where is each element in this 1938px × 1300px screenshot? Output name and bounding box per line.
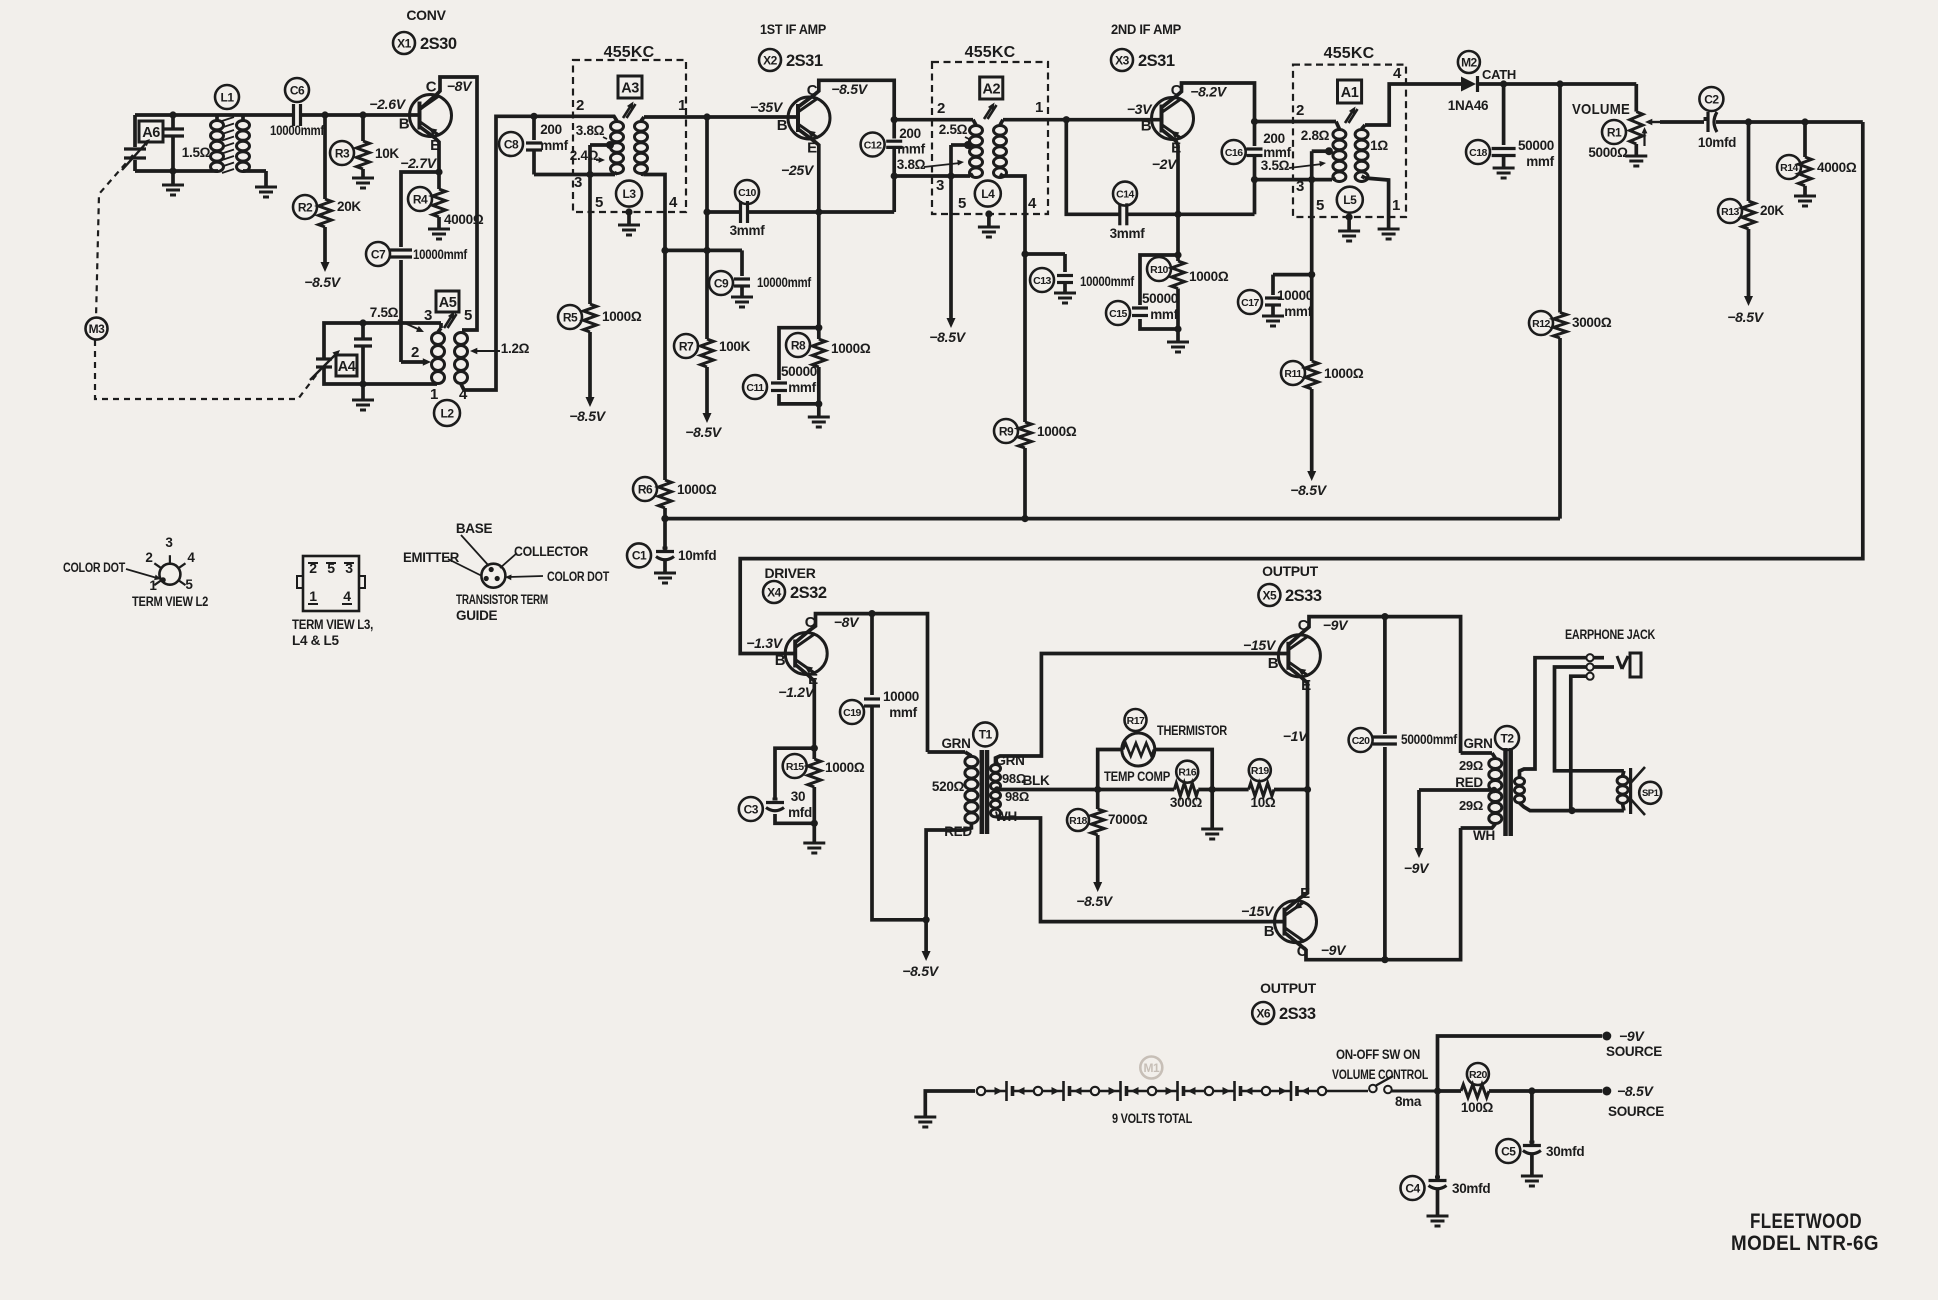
pin number 4 of L4	[1028, 195, 1037, 212]
transistor ref X6	[1252, 1002, 1274, 1024]
svg-text:A1: A1	[1341, 85, 1359, 101]
capacitor C13 10000mmf	[1057, 276, 1073, 283]
wire X2 emitter	[798, 129, 819, 212]
node A1 pin3 crossing	[1308, 176, 1315, 183]
transformer T2 primary coil	[1461, 753, 1502, 824]
svg-text:5: 5	[185, 577, 193, 592]
svg-text:3: 3	[574, 174, 582, 191]
wire X1 collector to -8V rail	[420, 77, 478, 330]
net -8.5V below A2	[929, 329, 966, 345]
transistor X6 2S33	[1275, 901, 1317, 943]
svg-text:4000Ω: 4000Ω	[444, 212, 484, 227]
svg-text:M2: M2	[1461, 55, 1477, 69]
value 10mfd C1	[678, 548, 716, 563]
net -8.5V below R5	[569, 408, 606, 424]
svg-text:C11: C11	[746, 382, 764, 394]
wire to -9V source	[1438, 1036, 1603, 1091]
wire T1 primary bottom	[926, 824, 971, 920]
label VOLUME CONTROL	[1332, 1067, 1428, 1082]
svg-text:4: 4	[1393, 65, 1402, 82]
wire C16 to bottom wire	[1253, 180, 1257, 215]
terminal view L3 box	[297, 556, 365, 611]
svg-text:−8.2V: −8.2V	[1190, 84, 1227, 100]
label L4 and L5	[292, 633, 339, 648]
type 2S32	[790, 584, 827, 602]
wire BLK center tap	[994, 786, 1098, 792]
svg-text:3mmf: 3mmf	[1110, 226, 1146, 241]
resistor label R13	[1718, 199, 1742, 223]
core arrow of L4	[984, 103, 997, 120]
svg-text:R15: R15	[786, 761, 804, 773]
node C18 junction	[1500, 80, 1507, 87]
label VOLUME	[1572, 101, 1630, 118]
IF transformer A1 dashed shield box	[1293, 65, 1406, 217]
svg-text:A3: A3	[621, 81, 639, 97]
wire diode to volume	[1478, 84, 1636, 112]
value mmf C15	[1150, 307, 1178, 322]
ground below C17	[1262, 305, 1284, 326]
wire X3 collector rail	[1162, 83, 1255, 122]
node R8 top	[815, 324, 822, 331]
wire to R3	[361, 115, 365, 141]
resistor R20 100ohm	[1461, 1085, 1489, 1098]
svg-text:L1: L1	[220, 90, 234, 104]
node R8 bottom	[815, 400, 822, 407]
wire T1 sec bottom to X6 base	[996, 816, 1285, 922]
svg-text:R12: R12	[1532, 318, 1550, 330]
box label A4	[336, 355, 357, 376]
wire T2 sec bottom	[1520, 803, 1573, 811]
capacitor C8 200mmf	[526, 116, 542, 174]
transformer T2 secondary	[1515, 778, 1525, 803]
svg-text:1000Ω: 1000Ω	[1189, 269, 1229, 284]
pin letter E of X3	[1171, 140, 1181, 157]
type 2S33 lower	[1279, 1005, 1316, 1023]
value 3000ohm	[1572, 315, 1612, 330]
node tap/pin5 crossing	[586, 171, 593, 178]
node X1 emitter junction	[435, 168, 442, 175]
wire R14	[1803, 122, 1807, 157]
node R6 bus junction	[661, 515, 668, 522]
pin number 3 of L4	[936, 177, 944, 194]
voltage -3V at X3 base	[1127, 101, 1153, 117]
svg-text:−1.3V: −1.3V	[746, 635, 783, 651]
ground below R1	[1625, 144, 1647, 166]
wire left vertical of X2 cell	[705, 117, 709, 339]
svg-text:mfd: mfd	[788, 805, 812, 820]
svg-text:2: 2	[411, 344, 419, 361]
label EARPHONE JACK	[1565, 627, 1655, 642]
potentiometer R1 5000ohm	[1630, 112, 1660, 144]
coil label L4	[975, 181, 1001, 207]
value 100K	[719, 339, 751, 354]
IF transformer A2 dashed shield box	[932, 62, 1048, 214]
wire A2 pin2	[894, 118, 973, 122]
svg-text:R9: R9	[999, 424, 1014, 438]
coil L4 secondary	[994, 120, 1007, 178]
wire C12 down to bottom	[892, 176, 896, 212]
label BASE	[456, 521, 493, 536]
value 50000 C18	[1518, 138, 1554, 153]
svg-text:100K: 100K	[719, 339, 751, 354]
capacitor C5 30mfd	[1521, 1091, 1543, 1186]
svg-text:CATH: CATH	[1482, 67, 1516, 82]
svg-text:200: 200	[1263, 131, 1285, 146]
svg-text:1000Ω: 1000Ω	[602, 309, 642, 324]
svg-text:X4: X4	[767, 585, 782, 599]
svg-text:−3V: −3V	[1127, 101, 1153, 117]
coil L4 primary	[970, 120, 983, 178]
net -8.5V below T1	[902, 963, 939, 979]
value mmf C12	[897, 142, 925, 157]
svg-text:455KC: 455KC	[965, 44, 1016, 61]
variable capacitor A4	[310, 350, 340, 380]
svg-text:−1V: −1V	[1283, 728, 1309, 744]
pin letter B of X6	[1264, 923, 1275, 940]
label 455KC first IF	[604, 44, 655, 61]
pin number 1 of L4	[1035, 99, 1043, 116]
pin number 2 of L2	[411, 344, 419, 361]
svg-text:FLEETWOOD: FLEETWOOD	[1750, 1210, 1862, 1233]
capacitor C14 3mmf	[1120, 203, 1127, 225]
shield ground of A2	[978, 210, 1000, 237]
voltage -1.2V at X4 emitter	[778, 684, 815, 700]
thermistor R17	[1122, 733, 1155, 766]
wire T2 primary bottom	[1461, 824, 1496, 828]
voltage -2.7V at X1 emitter	[400, 155, 437, 171]
pot wiper up arrow	[1642, 127, 1648, 146]
capacitor label C10	[735, 180, 759, 204]
pin letter C of X3	[1171, 82, 1182, 99]
svg-text:B: B	[399, 116, 410, 133]
tap wire into L3	[590, 141, 614, 175]
label 8ma	[1395, 1094, 1422, 1109]
resistor label R18	[1067, 809, 1089, 831]
pin letter B of X4	[775, 652, 786, 669]
wire C6 to X1 base	[301, 113, 422, 117]
wire T1 primary top	[928, 750, 966, 754]
wire pin5 down to C17 junction	[1310, 180, 1314, 275]
pin letter B of X5	[1268, 655, 1279, 672]
pin letter B of X3	[1141, 118, 1152, 135]
diode label M2	[1458, 51, 1480, 73]
pin number 5 of L3	[595, 194, 603, 211]
svg-text:3000Ω: 3000Ω	[1572, 315, 1612, 330]
net -8.5V below R18	[1076, 893, 1113, 909]
svg-text:R7: R7	[679, 339, 694, 353]
ground below C9	[731, 286, 753, 307]
svg-text:C20: C20	[1352, 735, 1370, 747]
label OUTPUT X6	[1260, 980, 1317, 996]
svg-text:R4: R4	[413, 192, 428, 206]
thermistor R17 loop	[1098, 750, 1213, 790]
antenna coil L1 core	[222, 117, 234, 173]
svg-text:1: 1	[149, 578, 157, 593]
svg-text:OUTPUT: OUTPUT	[1262, 563, 1319, 579]
svg-text:30: 30	[791, 789, 805, 804]
capacitor C10 3mmf	[741, 201, 748, 223]
node R15 top	[811, 745, 818, 752]
terminal -9V source	[1602, 1032, 1611, 1041]
svg-text:L4 & L5: L4 & L5	[292, 633, 339, 648]
svg-text:C16: C16	[1225, 147, 1243, 159]
resistor label R4	[408, 187, 432, 211]
pin letter E of X6	[1300, 885, 1310, 902]
svg-text:X1: X1	[397, 36, 412, 50]
label 2ND IF AMP	[1111, 21, 1181, 37]
node C8 top	[530, 113, 537, 120]
voltage -1V at X5 emitter	[1283, 728, 1309, 744]
pin number 3 of L2	[424, 307, 432, 324]
net -8.5V below R11	[1290, 482, 1327, 498]
svg-text:CONV: CONV	[406, 7, 446, 23]
resistor R9 1000ohm	[1019, 422, 1032, 448]
svg-text:8ma: 8ma	[1395, 1094, 1422, 1109]
voltage -35V at X2 base	[750, 99, 784, 115]
capacitor C11 block	[779, 328, 819, 404]
resistor R6 1000ohm	[659, 480, 672, 508]
value mmf C11	[788, 380, 816, 395]
label WH T1	[995, 809, 1017, 824]
svg-text:10000mmf: 10000mmf	[1080, 274, 1135, 289]
svg-text:MODEL NTR-6G: MODEL NTR-6G	[1731, 1232, 1879, 1255]
label GUIDE	[456, 608, 498, 623]
svg-text:1.2Ω: 1.2Ω	[501, 341, 530, 356]
wire L5 pin1 to ground	[1365, 178, 1400, 239]
pin letter B of X2	[777, 117, 788, 134]
core arrow of L3	[623, 102, 636, 119]
node X2 base junction	[703, 113, 710, 120]
capacitor label C13	[1030, 268, 1054, 292]
label COLOR DOT right	[547, 569, 610, 584]
wire tap to R16	[1098, 788, 1175, 792]
value mfd C3	[788, 805, 812, 820]
label 1.2ohm	[470, 341, 530, 356]
svg-text:R18: R18	[1069, 815, 1087, 827]
wire emitter branch to C7	[401, 172, 439, 247]
svg-text:R16: R16	[1178, 766, 1196, 778]
value mmf C16	[1263, 145, 1291, 160]
value 5000ohm	[1588, 145, 1628, 160]
svg-text:−15V: −15V	[1241, 903, 1275, 919]
variable capacitor A6 (tuning gang section)	[122, 115, 150, 171]
svg-text:mmf: mmf	[897, 142, 925, 157]
ground below R8	[808, 404, 830, 427]
capacitor C12 200mmf	[886, 120, 902, 176]
transistor X1 2S30 converter	[410, 95, 452, 137]
net -8.5V SOURCE	[1608, 1083, 1664, 1119]
svg-text:TRANSISTOR TERM: TRANSISTOR TERM	[456, 592, 548, 607]
svg-text:SOURCE: SOURCE	[1608, 1104, 1664, 1119]
value 300ohm	[1170, 795, 1203, 810]
svg-text:−9V: −9V	[1404, 860, 1430, 876]
svg-text:R8: R8	[791, 338, 806, 352]
label 1NA46	[1448, 98, 1489, 113]
resistor R3 10K	[357, 141, 370, 169]
capacitor label C12	[861, 133, 885, 157]
capacitor label C19	[840, 700, 864, 724]
svg-text:1000Ω: 1000Ω	[1324, 366, 1364, 381]
value 200 C16	[1263, 131, 1285, 146]
wire R19 to emitters	[1274, 788, 1308, 792]
net -9V lower	[1321, 942, 1347, 958]
svg-text:−8.5V: −8.5V	[569, 408, 606, 424]
pin number 2 of L5	[1296, 102, 1304, 119]
svg-text:−8.5V: −8.5V	[304, 274, 341, 290]
svg-text:C1: C1	[632, 549, 647, 563]
svg-text:−2.7V: −2.7V	[400, 155, 437, 171]
svg-text:SP1: SP1	[1642, 788, 1660, 799]
svg-text:−8V: −8V	[834, 614, 860, 630]
net -8.5V below R13	[1727, 309, 1764, 325]
value 7000ohm	[1108, 812, 1148, 827]
resistor R15 1000ohm	[808, 748, 821, 823]
resistor label R8	[786, 333, 810, 357]
node A4 top	[359, 319, 366, 326]
capacitor C20 50000mmf	[1373, 617, 1397, 960]
svg-text:455KC: 455KC	[1324, 45, 1375, 62]
label CONV	[406, 7, 446, 23]
label ON-OFF SW ON	[1336, 1047, 1420, 1062]
wire A6 bottom	[135, 169, 218, 173]
wire emitter to R10	[1176, 214, 1180, 255]
capacitor C17 10000mmf	[1265, 298, 1281, 305]
pin number 2 of L3	[576, 97, 584, 114]
resistor label R15	[783, 754, 807, 778]
antenna coil L1 secondary	[237, 115, 250, 172]
label 455KC second IF	[965, 44, 1016, 61]
diode M2 1NA46	[1461, 76, 1478, 92]
svg-text:mmf: mmf	[1150, 307, 1178, 322]
net -8V	[447, 78, 473, 94]
pin number 5 of L5	[1316, 197, 1324, 214]
label TERM VIEW L2	[132, 594, 208, 609]
wire junction to speaker	[1572, 809, 1624, 813]
svg-text:520Ω: 520Ω	[932, 779, 965, 794]
wire X1 emitter	[420, 127, 440, 173]
value 10ohm	[1251, 795, 1276, 810]
capacitor label C17	[1238, 290, 1262, 314]
resistor R2 20K	[319, 199, 332, 227]
transistor ref X2	[759, 49, 781, 71]
svg-text:5: 5	[464, 307, 472, 324]
wire R2 to -8.5V	[321, 227, 330, 272]
svg-text:−15V: −15V	[1243, 637, 1277, 653]
label RED T2	[1455, 775, 1483, 790]
svg-text:7000Ω: 7000Ω	[1108, 812, 1148, 827]
node R12 top junction	[1556, 80, 1563, 87]
svg-text:BLK: BLK	[1023, 773, 1050, 788]
svg-text:50000: 50000	[1142, 291, 1178, 306]
value 10000mmf C9	[757, 275, 812, 290]
svg-text:1000Ω: 1000Ω	[831, 341, 871, 356]
svg-text:−8.5V: −8.5V	[1617, 1083, 1654, 1099]
svg-text:L2: L2	[440, 406, 454, 420]
svg-text:−9V: −9V	[1619, 1028, 1645, 1044]
svg-text:WH: WH	[1473, 828, 1495, 843]
value 10K	[375, 146, 399, 161]
svg-text:455KC: 455KC	[604, 44, 655, 61]
svg-text:ON-OFF SW ON: ON-OFF SW ON	[1336, 1047, 1420, 1062]
capacitor C2 10mfd	[1704, 112, 1718, 132]
transistor X2 2S31	[788, 97, 830, 139]
pin letter B of X1	[399, 116, 410, 133]
node X3 emitter bottom	[1174, 211, 1181, 218]
svg-text:10Ω: 10Ω	[1251, 795, 1276, 810]
pin number 1 of L3	[678, 97, 686, 114]
node C9 junction mid	[703, 247, 710, 254]
value 4000ohm R14	[1817, 160, 1857, 175]
resistor R4 4000ohm	[433, 189, 446, 217]
svg-text:C14: C14	[1116, 188, 1134, 200]
title FLEETWOOD	[1750, 1210, 1862, 1233]
label 3.5ohm A1	[1261, 158, 1326, 173]
svg-text:C2: C2	[1704, 92, 1719, 106]
label 1.5ohm	[182, 145, 211, 160]
wire X2 bottom right segment	[748, 210, 895, 214]
svg-text:R14: R14	[1780, 162, 1798, 174]
transformer T1 secondary lower	[991, 792, 1001, 817]
label RED T1	[944, 824, 972, 839]
svg-text:20K: 20K	[1760, 203, 1784, 218]
wire X5 emitter	[1288, 667, 1307, 790]
capacitor C3 block	[775, 748, 814, 823]
pin number 4 of L3	[669, 194, 678, 211]
svg-text:R20: R20	[1469, 1069, 1487, 1081]
value 200 C12	[899, 126, 921, 141]
capacitor in A4 tank	[354, 323, 372, 384]
box label A3	[618, 76, 642, 98]
shield ground of A1	[1338, 213, 1360, 241]
svg-text:20K: 20K	[337, 199, 361, 214]
svg-text:X6: X6	[1256, 1006, 1271, 1020]
resistor label R7	[674, 334, 698, 358]
svg-text:mmf: mmf	[788, 380, 816, 395]
svg-text:−8.5V: −8.5V	[831, 81, 868, 97]
svg-text:2: 2	[1296, 102, 1304, 119]
jack contact 3	[1586, 673, 1593, 680]
svg-text:L3: L3	[622, 187, 636, 201]
value 1000ohm R10	[1189, 269, 1229, 284]
label 3.8ohm A2	[897, 157, 964, 172]
capacitor C19 10000mmf	[864, 614, 880, 706]
coil L5 primary	[1333, 122, 1346, 182]
label GRN T1 left	[941, 736, 970, 751]
value 50000mmf C20	[1401, 732, 1458, 747]
svg-text:5: 5	[1316, 197, 1324, 214]
svg-text:X5: X5	[1263, 588, 1278, 602]
svg-text:1.5Ω: 1.5Ω	[182, 145, 211, 160]
svg-text:M3: M3	[89, 322, 105, 336]
svg-text:2S32: 2S32	[790, 584, 827, 602]
node R13 junction	[1745, 118, 1752, 125]
svg-text:DRIVER: DRIVER	[764, 565, 815, 581]
transformer T1 secondary upper	[991, 765, 1001, 790]
wire A1 pin2	[1255, 120, 1337, 124]
svg-text:A4: A4	[338, 359, 356, 375]
svg-text:R3: R3	[335, 146, 350, 160]
svg-text:300Ω: 300Ω	[1170, 795, 1203, 810]
wire R20 to -8.5V source	[1489, 1089, 1602, 1093]
svg-text:C7: C7	[371, 247, 386, 261]
resistor label R16	[1176, 761, 1198, 783]
pin number 1 of L2	[430, 386, 438, 403]
svg-text:mmf: mmf	[540, 138, 568, 153]
svg-text:EMITTER: EMITTER	[403, 550, 460, 565]
wire X4 collector rail	[795, 614, 927, 752]
wire C2 to corner	[1716, 120, 1863, 124]
wire to R11	[1310, 275, 1314, 361]
